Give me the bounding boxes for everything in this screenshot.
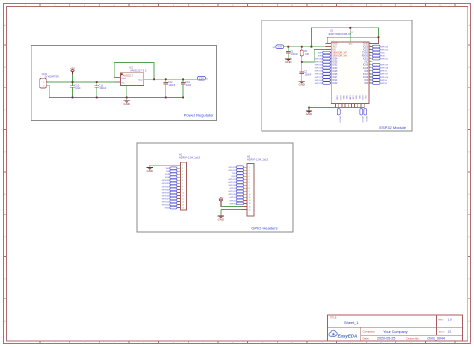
ground GND under U1 rail [306,108,312,117]
wire U1 pin1 to over-top GND wire [325,42,327,44]
section box: ESP32 Module [262,20,412,131]
svg-text:GPIO12: GPIO12 [162,204,170,206]
H1 pin 6 [177,180,183,182]
svg-text:5: 5 [182,177,183,179]
svg-text:GND: GND [285,60,291,64]
junction rail / C13 [182,97,184,99]
net label GPIO19 (U1 pin 31) [372,63,389,66]
junction Vout / loop [153,78,155,80]
net label GPIO12 (H1 pin 14) [162,203,177,206]
svg-text:2: 2 [182,168,183,170]
net label GPIO26 (U1 pin 11) [315,73,331,76]
svg-text:GND: GND [336,95,338,100]
U1 bottom pin 20 CLK [351,95,353,107]
power flag +5V [70,67,75,74]
wire 3.3V rail to U1 3V3 pin [284,46,331,48]
svg-text:10: 10 [249,194,251,196]
net label GPIO15 (U1 pin 23) [360,109,363,123]
net label GPIO14 (U1 pin 13) [315,79,331,82]
junction rail / C11 [96,97,98,99]
wire U2 GND pin to rail [126,86,128,99]
svg-text:GPIO25: GPIO25 [162,192,170,194]
wire rail over top of U1 to GND pins [311,28,378,47]
svg-text:15: 15 [249,209,251,211]
svg-text:EN: EN [166,171,169,173]
svg-text:Power Regulator: Power Regulator [184,112,214,117]
svg-text:GND: GND [165,207,170,209]
junction over-top GND wire [378,36,380,38]
svg-text:SVP: SVP [165,174,170,176]
svg-text:Your Company: Your Company [383,330,407,334]
net label SVN (U1 pin 5) [318,54,331,57]
svg-text:Date:: Date: [363,336,370,340]
svg-text:26: 26 [369,79,371,81]
net flag 3.3V input [273,45,284,49]
svg-text:EasyEDA: EasyEDA [338,333,358,338]
net label GPIO13 (U1 pin 16) [337,109,340,123]
svg-text:GPIO16: GPIO16 [381,77,389,79]
ground GND under C1 [285,56,291,64]
svg-text:5V ADAPTER: 5V ADAPTER [45,76,60,79]
capacitor C2 100nF [300,62,312,79]
power flag +5V at H2 [218,196,223,206]
H1 pin 9 [177,189,183,191]
svg-text:1: 1 [43,82,44,84]
svg-text:GPIO14: GPIO14 [162,201,170,203]
H1 pin 5 [177,177,183,179]
H2 pin 2 [244,170,250,172]
svg-text:chris_9044: chris_9044 [427,337,445,341]
svg-text:Vout: Vout [138,78,143,81]
U1 left pin 5 SENSOR_VN [330,55,347,58]
net label GPIO25 (U1 pin 10) [315,70,331,73]
U1 left pin 9 IO33 [330,67,338,70]
svg-text:5: 5 [249,179,250,181]
U1 left pin 11 IO26 [329,73,338,76]
net label GPIO18 (U1 pin 30) [372,67,389,70]
title block Date field [363,336,396,340]
U1 right pin 34 RXD0 [362,55,373,58]
IC U1 ESP-WROOM-32 [329,29,369,104]
svg-text:IO0: IO0 [364,82,369,85]
svg-text:GPIO22: GPIO22 [381,49,389,51]
svg-text:GPIO21: GPIO21 [228,179,236,181]
U1 bottom pin 21 SD0 [355,95,357,107]
H1 pin 2 [177,168,183,170]
svg-text:Drawn By:: Drawn By: [407,336,420,340]
wire CN1 pin1 to U2 Vin [48,81,120,83]
svg-text:100nF: 100nF [291,53,298,56]
net label RXD (H2 pin 4) [232,175,244,178]
net label GPIO34 (U1 pin 6) [315,57,331,60]
svg-text:SVN: SVN [318,55,323,57]
net label GPIO23 (H2 pin 1) [228,166,243,169]
U1 bottom pin 15 GND [336,95,338,107]
svg-text:AMS1117: AMS1117 [123,74,134,77]
regulator U2 AMS1117-3.3 [115,65,149,88]
svg-text:4: 4 [182,174,183,176]
H2 pin 12 [244,200,251,202]
junction rail / C1 [287,46,289,48]
U1 right pin 25 IO0 [364,82,372,85]
junction Vout net / C12 [165,78,167,80]
net label SVP (H1 pin 4) [165,173,177,176]
H2 pin 3 [244,173,250,175]
net label RXD (U1 pin 34) [372,54,385,57]
net flag 3.3V output [197,76,208,80]
wire CN1 pin2 down to ground rail [48,85,183,97]
resistor R1 10K [300,47,309,56]
net label GPIO0 (H2 pin 13) [230,202,244,205]
svg-text:3.3V: 3.3V [199,77,204,80]
svg-text:GPIO14: GPIO14 [315,80,323,82]
svg-text:10uF: 10uF [186,84,192,87]
connector CN1 5V ADAPTER [40,72,59,88]
capacitor C1 100nF [286,47,298,56]
U1 right pin 37 IO23 [363,45,373,48]
svg-text:33: 33 [369,58,371,60]
svg-text:8: 8 [182,186,183,188]
wire H1 pin1 to ground [150,164,175,166]
svg-text:Vout: Vout [121,77,126,80]
H1 pin 7 [177,183,183,185]
svg-text:GPIO25: GPIO25 [315,71,323,73]
ground GND at H1 pin1 [147,165,153,173]
net label GPIO33 (U1 pin 9) [315,67,331,70]
svg-text:3: 3 [182,171,183,173]
junction EN node [301,61,303,63]
net label SVP (U1 pin 4) [318,51,330,54]
U1 left pin 10 IO25 [329,70,338,73]
capacitor C11 100nF [94,82,106,98]
svg-text:2: 2 [43,86,44,88]
svg-text:GPIO18: GPIO18 [228,185,236,187]
title block [328,315,463,341]
U1 right pin 26 IO4 [364,79,372,82]
svg-text:100nF: 100nF [169,84,176,87]
svg-text:3v: 3v [206,78,208,80]
svg-text:2: 2 [249,170,250,172]
U1 bottom pin 22 SD1 [358,95,360,107]
svg-text:RXD: RXD [232,176,237,178]
header H2 HDR-F-2.54_1x15 [247,155,269,216]
svg-text:CLK: CLK [352,95,354,100]
U1 bottom pin 24 IO2 [364,95,366,107]
svg-text:TXD: TXD [381,52,386,54]
svg-text:GPIO34: GPIO34 [315,58,323,60]
svg-text:39: 39 [351,32,353,34]
svg-text:G: G [468,279,470,281]
U1 right pin 36 IO22 [363,48,373,51]
H1 pin 8 [177,186,183,188]
U1 right pin 38 GND [363,42,373,45]
junction rail / over-top wire [311,46,313,48]
svg-text:3.3V: 3.3V [278,47,283,49]
H1 pin 13 [177,201,184,203]
net label GPIO21 (U1 pin 33) [372,57,389,60]
junction input net / C10 [72,81,74,83]
svg-text:12: 12 [249,200,251,202]
junction rail / C12 [165,97,167,99]
junction rail / R1 [301,46,303,48]
net label GPIO35 (U1 pin 7) [315,60,331,63]
svg-text:GND: GND [348,44,353,46]
U1 left pin 3 EN [325,48,335,51]
svg-text:35: 35 [369,52,371,54]
svg-text:TITLE:: TITLE: [330,318,337,320]
net label TXD (H2 pin 3) [232,172,244,175]
svg-text:100nF: 100nF [99,87,106,90]
svg-text:GPIO0: GPIO0 [230,203,237,205]
svg-text:GPIO33: GPIO33 [162,189,170,191]
svg-text:1: 1 [249,167,250,169]
net label GPIO5 (H2 pin 8) [230,187,244,190]
section box: Power Regulator [31,45,216,120]
net label GPIO26 (H1 pin 11) [162,194,177,197]
U1 left pin 6 IO34 [330,58,338,61]
U1 right pin 32 NC [365,61,373,64]
svg-text:30: 30 [369,67,371,69]
svg-text:27: 27 [369,76,371,78]
svg-text:GPIO27: GPIO27 [315,77,323,79]
U1 right pin 31 IO19 [363,64,373,67]
H1 pin 11 [177,195,184,197]
net label GPIO21 (H2 pin 5) [228,178,243,181]
svg-text:ESP-WROOM-32: ESP-WROOM-32 [329,32,352,36]
svg-text:GPIO35: GPIO35 [315,62,323,64]
net label GPIO27 (U1 pin 12) [315,76,331,79]
wire GND pins 1-38 over top of U1 [327,37,378,43]
svg-text:GPIO26: GPIO26 [162,195,170,197]
junction Vout net / C13 [182,78,184,80]
svg-text:AMS1117-3.3: AMS1117-3.3 [130,68,147,72]
svg-text:REV:: REV: [439,320,444,322]
U1 right pin 29 IO5 [364,70,372,73]
wire H2 pin14 to +5V [221,203,242,207]
svg-text:1: 1 [182,165,183,167]
U1 bottom pin 17 SD2 [342,95,344,107]
svg-text:Sheet:: Sheet: [439,331,446,334]
title block TITLE field [330,318,359,325]
net label GPIO32 (U1 pin 8) [315,63,331,66]
U1 right pin 30 IO18 [363,67,373,70]
net label GND (H1 pin 15) [165,206,177,209]
svg-text:14: 14 [249,206,251,208]
net label 3V3 (H1 pin 2) [166,167,177,170]
svg-text:GPIO4: GPIO4 [381,80,388,82]
svg-text:2020-05-25: 2020-05-25 [377,337,395,341]
H1 pin 10 [177,192,184,194]
net label GPIO17 (H2 pin 9) [228,190,243,193]
svg-text:SVN: SVN [165,177,170,179]
svg-text:3.3: 3.3 [273,47,276,49]
svg-text:34: 34 [369,55,371,57]
svg-text:G: G [4,279,6,281]
junction rail / U2 GND [126,97,128,99]
net label GPIO14 (H1 pin 13) [162,200,177,203]
svg-text:GND: GND [147,169,153,173]
svg-text:GND: GND [123,102,129,106]
svg-text:8: 8 [249,188,250,190]
net label GPIO17 (U1 pin 28) [372,73,389,76]
svg-text:1.0: 1.0 [448,318,452,322]
U1 left pin 8 IO32 [330,64,338,67]
junction input net / C11 [96,81,98,83]
net label GPIO16 (H2 pin 10) [228,193,243,196]
H1 pin 12 [177,198,184,200]
svg-text:GPIO16: GPIO16 [228,194,236,196]
svg-text:32: 32 [369,61,371,63]
svg-text:GPIO13: GPIO13 [339,116,341,123]
U1 left pin 1 GND [325,42,337,45]
svg-text:GND: GND [299,83,305,87]
junction rail / GND stem [308,107,310,109]
net label SVN (H1 pin 5) [165,176,177,179]
section box: GPIO Headers [137,143,293,232]
net label EN (H1 pin 3) [166,170,177,173]
H2 pin 8 [244,188,250,190]
title block Drawn By field [407,336,445,340]
net label GPIO25 (H1 pin 10) [162,191,177,194]
net label GPIO34 (H1 pin 6) [162,179,177,182]
net label GPIO33 (H1 pin 9) [162,188,177,191]
svg-text:GPIO19: GPIO19 [228,182,236,184]
svg-text:GPIO17: GPIO17 [228,191,236,193]
svg-text:GPIO5: GPIO5 [381,71,388,73]
svg-text:14: 14 [182,204,184,206]
svg-text:6: 6 [249,182,250,184]
H2 pin 10 [244,194,251,196]
U1 bottom pin 18 SD3 [345,95,347,107]
svg-text:7: 7 [249,185,250,187]
svg-text:9: 9 [182,189,183,191]
junction rail / C10 [72,97,74,99]
net label GPIO4 (H2 pin 11) [230,196,244,199]
H2 pin 7 [244,185,250,187]
net label GPIO23 (U1 pin 37) [372,45,389,48]
ground GND under C2 [299,79,305,87]
svg-text:9: 9 [249,191,250,193]
title block Sheet field [439,330,452,334]
svg-text:GPIO21: GPIO21 [381,58,389,60]
H2 pin 6 [244,182,250,184]
svg-text:HDR-F-2.54_1x15: HDR-F-2.54_1x15 [247,158,269,162]
svg-text:SVP: SVP [318,52,323,54]
svg-text:GND: GND [306,112,312,116]
U1 left pin 2 3V3 [325,45,337,48]
svg-text:GPIO5: GPIO5 [230,188,237,190]
svg-text:4: 4 [249,176,250,178]
svg-text:GPIO15: GPIO15 [361,116,363,123]
svg-text:100nF: 100nF [305,73,312,76]
svg-text:ESP32 Module: ESP32 Module [379,125,406,130]
svg-text:GPIO23: GPIO23 [381,46,389,48]
svg-text:31: 31 [369,64,371,66]
ground GND under U2 [123,98,129,106]
U1 left pin 13 IO14 [329,79,338,82]
svg-text:GPIO2: GPIO2 [230,200,237,202]
H1 pin 14 [177,204,184,206]
wire U2 Vout to 3.3V flag [144,78,197,80]
ground rail under U1 [309,107,365,109]
wire EN node to U1 EN pin [302,50,331,62]
net label GPIO4 (U1 pin 26) [372,79,387,82]
svg-text:IO12: IO12 [332,82,338,85]
svg-text:7: 7 [182,183,183,185]
svg-text:36: 36 [369,49,371,51]
net label GPIO18 (H2 pin 7) [228,184,243,187]
H2 pin 11 [244,197,251,199]
capacitor C13 10uF [181,79,192,97]
H1 pin 3 [177,171,183,173]
title block REV field [439,318,452,322]
svg-text:11: 11 [249,197,251,199]
svg-text:TXD: TXD [232,173,237,175]
net label GPIO22 (U1 pin 36) [372,48,389,51]
svg-text:GPIO0: GPIO0 [381,83,388,85]
H2 pin 15 [241,209,250,211]
svg-text:GPIO34: GPIO34 [162,180,170,182]
net label GPIO19 (H2 pin 6) [228,181,243,184]
capacitor C12 100nF [164,79,176,97]
svg-text:GPIO35: GPIO35 [162,183,170,185]
svg-text:1/1: 1/1 [448,330,452,334]
header H1 HDR-F-2.54_1x15 [179,154,201,211]
net label GPIO35 (H1 pin 7) [162,182,177,185]
ground GND at H2 pin15 [218,210,224,222]
svg-text:GPIO12: GPIO12 [315,83,323,85]
U1 bottom pin 23 IO15 [361,95,363,107]
U1 left pin 4 SENSOR_VP [330,52,347,55]
U1 right pin 35 TXD0 [362,52,373,55]
svg-text:13: 13 [182,201,184,203]
wire H2 pin15 to ground [221,209,242,211]
svg-text:13: 13 [249,203,251,205]
H1 pin 15 [177,207,184,209]
net label GPIO2 (U1 pin 24) [364,109,367,122]
svg-text:GPIO33: GPIO33 [315,68,323,70]
title block Company field [363,330,408,334]
svg-text:25: 25 [369,82,371,84]
U1 right pin 33 IO21 [363,58,373,61]
capacitor C10 10uF [70,82,81,98]
net label TXD (U1 pin 35) [372,51,385,54]
wire U2 Vout loop over top to tab pin [114,62,154,79]
H1 pin 1 [174,165,183,167]
svg-text:CMD: CMD [348,95,350,100]
svg-text:15: 15 [182,207,184,209]
net label GPIO2 (H2 pin 12) [230,199,244,202]
U1 pin 39 GND pad stub [348,28,353,46]
svg-text:GPIO18: GPIO18 [381,68,389,70]
svg-text:10uF: 10uF [75,87,81,90]
svg-text:HDR-F-2.54_1x15: HDR-F-2.54_1x15 [179,156,201,160]
svg-text:GPIO4: GPIO4 [230,197,237,199]
svg-text:Sheet_1: Sheet_1 [344,320,359,325]
H2 pin 13 [244,203,251,205]
net label GPIO32 (H1 pin 8) [162,185,177,188]
svg-text:11: 11 [182,195,184,197]
H2 pin 14 [241,206,250,208]
net label GPIO0 (U1 pin 25) [372,82,387,85]
svg-text:GPIO32: GPIO32 [315,65,323,67]
U1 left pin 12 IO27 [329,76,338,79]
U1 bottom pin 16 IO13 [339,95,341,107]
svg-text:6: 6 [182,180,183,182]
svg-text:GPIO17: GPIO17 [381,74,389,76]
svg-text:29: 29 [369,70,371,72]
wire +5V to input net [72,74,74,82]
